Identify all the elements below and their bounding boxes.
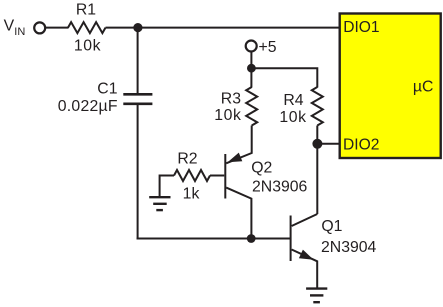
resistor R2 <box>174 170 210 181</box>
label +5 <box>259 39 277 56</box>
wire +5 terminal to R3 <box>250 52 252 88</box>
junction node D (R4 / DIO2 / Q1 collector) <box>312 139 322 149</box>
input terminal VIN <box>34 22 45 33</box>
transistor Q1 base bar <box>290 216 292 262</box>
bottom rail wire to Q1 base <box>137 238 291 240</box>
svg-text:DIO1: DIO1 <box>343 19 379 36</box>
resistor R3 <box>246 87 257 126</box>
svg-text:2N3906: 2N3906 <box>252 179 308 196</box>
svg-text:10k: 10k <box>74 38 101 55</box>
transistor Q1 emitter <box>292 250 318 288</box>
microcontroller U1 box <box>340 14 441 159</box>
transistor Q2 base bar <box>224 154 226 199</box>
value 2N3904 (Q1) <box>321 239 377 256</box>
wire node A down to C1 <box>137 28 139 94</box>
svg-text:1k: 1k <box>183 186 200 203</box>
svg-text:µC: µC <box>413 78 434 95</box>
transistor Q2 emitter (from R3) <box>226 126 252 164</box>
wire R2 right to Q2 base <box>210 175 224 177</box>
svg-text:R4: R4 <box>283 92 303 109</box>
svg-text:10k: 10k <box>279 109 306 126</box>
wire VIN terminal to R1 <box>46 27 69 29</box>
junction node C (+5 rail split) <box>247 64 256 73</box>
svg-text:+5: +5 <box>259 39 277 56</box>
label R3 <box>221 90 241 107</box>
svg-text:V: V <box>4 17 15 34</box>
wire R2 left to ground corner <box>160 176 174 197</box>
wire node D to DIO2 <box>317 143 340 145</box>
value 1k (R2) <box>183 186 200 203</box>
svg-text:IN: IN <box>14 26 25 38</box>
ground G2 (Q1 emitter) <box>306 289 327 303</box>
label Q1 <box>321 218 342 235</box>
transistor Q2 collector <box>226 188 251 239</box>
svg-text:0.022µF: 0.022µF <box>58 98 118 115</box>
junction node A (R1/C1) <box>133 23 142 32</box>
resistor R4 <box>312 87 323 126</box>
label R4 <box>283 92 303 109</box>
transistor Q1 collector <box>292 214 318 226</box>
pin DIO1 <box>343 19 379 36</box>
wire C1 down to bottom rail <box>137 104 139 240</box>
svg-text:Q1: Q1 <box>321 218 342 235</box>
wire node C to R4 top <box>251 68 317 87</box>
svg-text:R3: R3 <box>221 90 241 107</box>
capacitor C1 <box>123 94 152 104</box>
wire R1 to DIO1 <box>106 27 341 29</box>
label uC <box>413 78 434 95</box>
resistor R1 <box>68 22 106 33</box>
value 10k (R3) <box>214 107 241 124</box>
label Q2 <box>251 160 272 177</box>
node VIN label <box>4 17 26 38</box>
junction node B (bottom rail / Q2 collector / Q1 base) <box>247 234 256 243</box>
svg-text:R2: R2 <box>177 150 197 167</box>
label R1 <box>76 2 96 19</box>
label R2 <box>177 150 197 167</box>
value 2N3906 (Q2) <box>252 179 308 196</box>
+5 supply terminal <box>246 41 257 52</box>
wire node D down to Q1 collector <box>316 144 318 214</box>
label C1 <box>97 81 117 98</box>
wire R4 bottom to DIO2 node <box>316 126 318 144</box>
value 0.022uF (C1) <box>58 98 118 115</box>
value 10k (R4) <box>279 109 306 126</box>
svg-text:Q2: Q2 <box>251 160 272 177</box>
ground G1 (R2) <box>149 197 170 210</box>
svg-text:2N3904: 2N3904 <box>321 239 377 256</box>
pin DIO2 <box>343 137 379 154</box>
svg-text:C1: C1 <box>97 81 117 98</box>
svg-text:DIO2: DIO2 <box>343 137 379 154</box>
value 10k (R1) <box>74 38 101 55</box>
svg-text:R1: R1 <box>76 2 96 19</box>
svg-text:10k: 10k <box>214 107 241 124</box>
